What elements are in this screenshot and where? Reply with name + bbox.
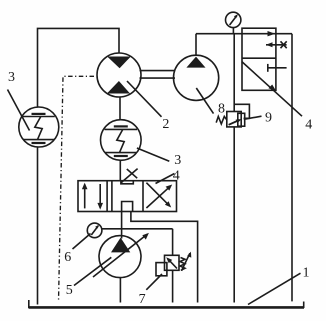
gauge G1 stem <box>232 28 234 34</box>
motor U2 (bidirectional hydraulic motor) <box>97 53 141 97</box>
3b top chord <box>105 128 138 130</box>
flow arrowhead on top-right wire <box>268 31 276 36</box>
svg-text:1: 1 <box>303 266 310 281</box>
wire left vertical to tank rail <box>37 147 39 305</box>
valve X cell diagonal 1 <box>146 186 170 208</box>
leader line label 9 <box>244 116 262 119</box>
leader line label 3b <box>137 148 169 161</box>
shaft double line between motor and pump <box>140 70 176 72</box>
closed port X mark above valve <box>121 169 138 183</box>
valve X cell diagonal 2 <box>146 183 169 206</box>
wire right main vertical (lower) <box>233 127 235 303</box>
pump U8 (fixed displacement pump) <box>174 55 219 100</box>
wire valve bottom to pump 5 <box>121 212 123 239</box>
sequence valve V9 internal arrow <box>229 120 240 125</box>
svg-text:4: 4 <box>173 168 180 183</box>
leader line label 8 <box>196 88 213 114</box>
pump P5 (variable displacement) <box>99 236 141 278</box>
directional valve V45 body <box>78 181 177 212</box>
svg-text:3: 3 <box>8 70 15 85</box>
enclosure dash-dot boundary <box>59 76 95 302</box>
sequence valve V9 body <box>227 112 241 127</box>
relief valve V7 internal arrow <box>168 259 177 269</box>
leader line label 4 (right block) <box>242 62 302 117</box>
wire relief valve 7 to rail <box>172 270 174 302</box>
valve divider line a <box>106 181 108 212</box>
pump U8 triangle <box>186 57 205 68</box>
3a bottom chord <box>23 139 54 141</box>
valve block V4 top port stub with arrow and closed mark <box>266 44 287 46</box>
wire pump P5 bottom to rail <box>119 278 121 303</box>
leader line label 6 <box>73 234 91 250</box>
gauge G6 needle <box>91 226 98 235</box>
svg-text:3: 3 <box>174 153 181 168</box>
svg-text:9: 9 <box>265 111 272 126</box>
leader line label 7 <box>146 274 162 290</box>
gauge G1 needle <box>230 15 237 25</box>
tank rail <box>29 306 305 309</box>
pump P5 variability arrow <box>93 234 147 277</box>
relief valve V7 adjust arrow <box>182 253 190 271</box>
3a zigzag <box>35 117 42 140</box>
valve bottom notch <box>122 202 133 212</box>
leader line label 4 (valve) <box>156 174 175 184</box>
wire top-left horizontal <box>38 28 120 107</box>
leader line label 2 <box>127 81 162 117</box>
relief valve V7 offset square <box>156 263 167 276</box>
valve divider line b <box>111 181 113 212</box>
svg-text:4: 4 <box>305 117 312 132</box>
3a bottom bar <box>32 142 46 144</box>
3b zigzag <box>117 129 124 152</box>
wire right main vertical (upper) <box>233 34 235 112</box>
valve block V4 bottom port stub <box>268 67 287 69</box>
wire 3b to directional valve <box>119 160 121 180</box>
3a top chord <box>23 116 55 118</box>
valve left cell up arrow <box>84 184 86 208</box>
sequence valve V9 bypass loop <box>234 104 249 118</box>
tank rail left tick <box>28 300 30 308</box>
svg-text:2: 2 <box>162 117 169 132</box>
wire return to tank (staircase) <box>131 212 198 303</box>
3a top bar <box>32 113 46 115</box>
svg-text:7: 7 <box>139 292 146 307</box>
valve top notch <box>121 181 133 184</box>
valve block V4 divider <box>242 57 276 59</box>
svg-text:5: 5 <box>66 283 73 298</box>
motor U2 top triangle <box>107 57 131 69</box>
valve divider line c <box>142 181 144 212</box>
wire down to relief valve 7 <box>172 229 174 256</box>
circle component 3a (left) <box>19 107 59 147</box>
pump P5 triangle <box>111 238 130 253</box>
wire far-right vertical to rail <box>291 34 293 302</box>
sequence valve V9 spring <box>216 116 227 124</box>
3b bottom bar <box>114 155 128 157</box>
pressure gauge G1 <box>226 12 241 27</box>
circle component 3b (center) <box>101 120 142 161</box>
leader line label 5 <box>74 257 111 285</box>
wire pressure node horizontal <box>102 228 173 230</box>
valve block V4 body <box>242 28 276 90</box>
wire pump top riser <box>195 34 197 56</box>
wire motor bottom to circle 3b <box>119 97 121 120</box>
svg-text:6: 6 <box>64 250 71 265</box>
relief valve V7 body <box>165 255 180 270</box>
wire top-right horizontal <box>196 33 292 35</box>
3b top bar <box>114 125 128 127</box>
svg-text:8: 8 <box>218 102 225 117</box>
tank rail right tick <box>303 302 305 309</box>
leader line label 1 <box>248 273 301 304</box>
leader line label 3a <box>8 90 30 131</box>
valve left cell down arrow <box>99 184 101 208</box>
pressure gauge G6 <box>87 223 102 238</box>
3b bottom chord <box>105 152 137 154</box>
motor U2 bottom triangle <box>107 81 130 94</box>
relief valve V7 spring <box>180 258 185 271</box>
sequence valve V9 overlap square <box>238 113 245 126</box>
